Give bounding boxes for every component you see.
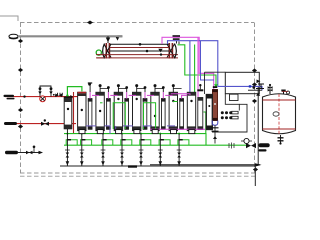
red stub left of exchanger bbox=[96, 55, 104, 58]
dark vessel V8 bbox=[206, 95, 213, 130]
top nozzles bbox=[270, 86, 284, 94]
steam inlet fitting lower lip bbox=[9, 38, 18, 39]
green loop arcs bbox=[100, 102, 178, 130]
tank bottom outlet bbox=[280, 135, 282, 144]
black line under blue bbox=[248, 89, 262, 91]
magenta vapor loop bbox=[162, 37, 214, 89]
steam arrow into exchanger bbox=[116, 37, 120, 41]
flow diamond on left border lower bbox=[18, 108, 23, 112]
product valve bbox=[246, 143, 256, 148]
flow diamond on right border upper bbox=[252, 69, 257, 73]
blue seal pot below separator bbox=[212, 121, 218, 126]
steam drop arrowhead bbox=[106, 38, 110, 43]
loop ticks bbox=[67, 139, 183, 141]
column C2 bbox=[106, 86, 111, 129]
vessel V4 bbox=[133, 84, 141, 131]
valve on feed line bbox=[55, 94, 62, 98]
circle pump near line bbox=[244, 138, 249, 143]
small box bbox=[230, 94, 239, 100]
box step piping bbox=[225, 94, 239, 111]
vent bridge lines bbox=[100, 88, 182, 90]
pipe down right of box bbox=[257, 87, 259, 165]
steam header line bbox=[18, 35, 122, 37]
column C3 bbox=[124, 86, 129, 129]
column C5 bbox=[161, 86, 166, 129]
column C1 bbox=[88, 83, 93, 130]
valve on lower feed line bbox=[41, 122, 49, 126]
flow diamond on left border upper bbox=[18, 39, 23, 43]
red riser 2 bbox=[84, 97, 86, 124]
steam drop into exchanger bbox=[107, 36, 109, 43]
blue stub to separator bbox=[201, 41, 215, 80]
heat exchanger E1 bbox=[97, 43, 178, 59]
vessel V1 bbox=[78, 92, 86, 131]
drain header bbox=[60, 165, 255, 167]
flow diamond on top border bbox=[87, 21, 93, 25]
tiny instrument marks bbox=[58, 93, 63, 96]
separator vessel S1 bbox=[212, 90, 217, 121]
magenta vapor manifold bbox=[92, 94, 190, 99]
column C4 bbox=[143, 86, 148, 129]
green jumper A to B bbox=[67, 87, 82, 97]
instrument stubs above bbox=[40, 86, 51, 97]
piping below separator bbox=[214, 125, 216, 143]
S1 top nozzle bbox=[213, 86, 218, 88]
left tubesheet bbox=[106, 43, 108, 59]
flow diamond on left border fourth bbox=[18, 125, 23, 129]
arrow on feed line bbox=[70, 95, 73, 98]
green line over exchanger bbox=[178, 45, 217, 87]
right channel head bbox=[175, 44, 177, 59]
vessel V3 bbox=[114, 84, 122, 131]
condensate box bbox=[225, 72, 259, 93]
purple condensate segments bbox=[86, 126, 175, 134]
valve manifold dots bbox=[221, 111, 232, 119]
condensate outlet bottom left bbox=[5, 151, 18, 154]
blue downcomer bbox=[190, 41, 193, 110]
battery-limit dashed border left bbox=[20, 23, 22, 174]
battery-limit dashed border bottom bbox=[20, 172, 255, 174]
vessel V2 bbox=[96, 84, 104, 131]
green valve left of exchanger bbox=[96, 50, 101, 55]
top-left corner tick bbox=[0, 16, 18, 21]
feed fitting bars bbox=[4, 95, 15, 97]
tiny marks on product line bbox=[229, 143, 234, 149]
battery-limit dashed border right bbox=[254, 23, 256, 174]
green downcomer 2 bbox=[194, 45, 196, 125]
leg arrows bbox=[66, 161, 181, 165]
bottom transfer line bbox=[150, 164, 260, 166]
left channel head bbox=[103, 44, 105, 59]
drain legs with valves bbox=[67, 129, 179, 166]
black line to box bbox=[205, 72, 226, 94]
pump circle on feed line bbox=[40, 96, 46, 102]
battery-limit dashed border bottom 2 bbox=[20, 175, 258, 177]
flow diamond on left border second bbox=[18, 68, 23, 72]
column C7 bbox=[198, 98, 203, 130]
flow diamond on right border 84 bbox=[252, 83, 257, 87]
product pump capsule bbox=[259, 143, 270, 147]
magenta bottom line bbox=[150, 128, 205, 130]
arrow right at box bbox=[257, 80, 261, 84]
steam inlet fitting (ellipse) bbox=[9, 34, 18, 38]
vessel V5 bbox=[151, 84, 159, 131]
valve bars above exchanger bbox=[173, 35, 181, 37]
vessel V6 bbox=[169, 84, 177, 131]
flash tank T1 bbox=[263, 84, 296, 135]
red riser bbox=[73, 92, 75, 134]
green bottoms manifold bbox=[64, 134, 206, 146]
green seal loops bbox=[66, 140, 189, 145]
tube lines bbox=[110, 43, 169, 45]
arrow on tube bbox=[158, 49, 162, 53]
magenta downcomer bbox=[197, 37, 199, 107]
flow diamond bottom right bbox=[253, 168, 258, 172]
green drop right of C7 bbox=[204, 112, 209, 134]
blue loop over exchanger bbox=[168, 41, 218, 87]
vessel V7 bbox=[187, 92, 195, 130]
black loop line bbox=[212, 104, 247, 132]
C7 top nozzle bbox=[197, 89, 203, 91]
blue line into tank bbox=[218, 86, 262, 90]
left feed line lower bbox=[8, 123, 76, 125]
steam header stub end bbox=[118, 35, 123, 37]
battery-limit dashed border top bbox=[20, 22, 254, 24]
vessel V0 bbox=[64, 96, 72, 128]
flow diamond on right border mid bbox=[252, 99, 257, 103]
tank inlet fittings left bbox=[256, 84, 264, 89]
green product line to pump bbox=[64, 144, 247, 146]
left feed line upper bbox=[5, 96, 78, 98]
right tubesheet bbox=[169, 43, 171, 59]
column C6 bbox=[179, 98, 184, 129]
bottom fittings under vessels bbox=[79, 130, 195, 134]
evaporator vessels bbox=[78, 83, 203, 131]
